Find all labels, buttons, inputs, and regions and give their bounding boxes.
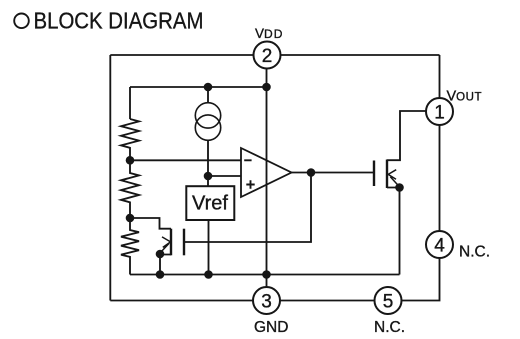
transistor Q2 channel bar bbox=[386, 160, 388, 189]
op-amp minus sign bbox=[244, 159, 251, 161]
svg-text:3: 3 bbox=[261, 292, 272, 313]
svg-text:BLOCK DIAGRAM: BLOCK DIAGRAM bbox=[34, 8, 204, 34]
transistor Q2 drain lead bbox=[387, 111, 427, 160]
node op-amp output bbox=[307, 168, 316, 177]
op-amp plus sign bbox=[246, 180, 254, 188]
node pin2 line to rail bbox=[262, 270, 271, 279]
current source I1 top lead bbox=[207, 87, 209, 103]
wire node to Vref box bbox=[207, 176, 209, 186]
pin 3 circle bbox=[253, 287, 280, 314]
wire pin2 down through op-amp to bottom rail bbox=[266, 69, 268, 275]
svg-text:5: 5 bbox=[383, 292, 394, 313]
op-amp U1 triangle bbox=[241, 148, 292, 197]
svg-text:GND: GND bbox=[254, 319, 288, 336]
transistor Q2 arrow bbox=[388, 170, 398, 186]
wire Vref box bottom to ground rail bbox=[208, 220, 210, 275]
title bullet circle bbox=[14, 13, 29, 28]
transistor Q1 source lead bbox=[160, 255, 171, 275]
current source I1 upper circle bbox=[195, 103, 220, 128]
node rail / pin2 line junction bbox=[262, 83, 271, 92]
wire rail corner down to R1 bbox=[129, 87, 131, 119]
current source I1 lower circle bbox=[195, 115, 220, 140]
outer box right edge (corner to pin 1) bbox=[439, 55, 441, 98]
svg-text:N.C.: N.C. bbox=[374, 319, 405, 336]
wire pin4 to bottom-right corner bbox=[402, 258, 440, 301]
wire op-amp output to output transistor gate bbox=[292, 172, 375, 174]
inner top rail bbox=[130, 86, 267, 88]
transistor Q2 source lead bbox=[387, 188, 400, 275]
Vref box bbox=[186, 186, 234, 220]
node Vref lead to rail bbox=[204, 270, 213, 279]
svg-text:N.C.: N.C. bbox=[459, 244, 490, 261]
node Q1 source to rail bbox=[156, 270, 165, 279]
transistor Q1 channel bar bbox=[170, 229, 172, 256]
inner bottom rail bbox=[130, 274, 400, 276]
wire pin1 to pin4 bbox=[439, 125, 441, 231]
transistor Q2 (output) gate bar bbox=[373, 161, 375, 187]
svg-text:2: 2 bbox=[262, 46, 273, 67]
node Q2 source corner bbox=[395, 183, 404, 192]
outer box top edge (pin 2 to top-right corner) bbox=[281, 54, 440, 56]
wire non-inverting input to op-amp bbox=[208, 175, 241, 177]
wire pin3 stub up to bottom rail bbox=[266, 275, 268, 288]
svg-text:4: 4 bbox=[434, 236, 445, 257]
wire inverting input (R1/R2 tap to op-amp) bbox=[130, 159, 241, 161]
svg-text:VOUT: VOUT bbox=[447, 89, 483, 105]
transistor Q1 (hysteresis) gate bar bbox=[183, 229, 185, 256]
node Q1 source corner bbox=[156, 250, 165, 259]
outer box top edge (left of pin 2) bbox=[110, 54, 253, 56]
pin 4 circle bbox=[426, 231, 453, 258]
current source I1 bottom lead bbox=[207, 140, 209, 176]
node current source tap on top rail bbox=[204, 83, 213, 92]
outer box left edge bbox=[109, 55, 111, 301]
resistor R3 bbox=[121, 218, 139, 275]
svg-text:VDD: VDD bbox=[255, 26, 284, 41]
pin 2 circle bbox=[254, 42, 281, 69]
transistor Q1 arrow bbox=[161, 237, 171, 253]
node R2/R3 junction bbox=[126, 214, 135, 223]
pin 1 circle bbox=[426, 98, 453, 125]
wire feedback from output node to hysteresis transistor gate bbox=[185, 173, 311, 243]
svg-text:1: 1 bbox=[434, 103, 445, 124]
pin 5 circle bbox=[375, 287, 402, 314]
transistor Q1 drain lead bbox=[130, 218, 171, 229]
svg-text:Vref: Vref bbox=[192, 193, 228, 215]
node R1/R2 junction bbox=[126, 156, 135, 165]
resistor R2 bbox=[121, 160, 139, 218]
node Vref / non-inverting input bbox=[204, 172, 213, 181]
outer box bottom edge (pin 3 to bottom-left corner) bbox=[110, 300, 253, 302]
resistor R1 bbox=[121, 119, 139, 160]
wire pin5 to pin3 bbox=[280, 300, 375, 302]
